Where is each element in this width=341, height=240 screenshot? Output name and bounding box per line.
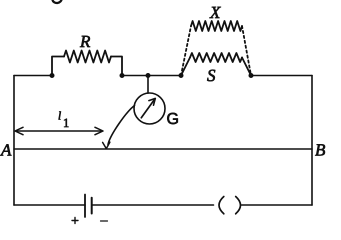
wire: top-right segment [251, 75, 312, 77]
wire: top-middle segment between R and S [122, 75, 181, 77]
galvanometer G [134, 93, 165, 124]
node: junction dot left of S/X [179, 73, 183, 77]
caption fragment (bottom of letter g from cropped figure caption) [52, 0, 62, 4]
label l1 [59, 112, 69, 128]
wire: slide wire A-B [14, 148, 312, 150]
label G [167, 113, 178, 124]
node: junction dot at galvanometer tap [146, 73, 150, 77]
battery cell [85, 195, 92, 218]
label S [207, 70, 215, 82]
wire: galvanometer lead [147, 76, 149, 94]
key K (open tap key shown as parentheses) [219, 197, 241, 214]
node: junction dot left of R [50, 73, 54, 77]
wire: left vertical edge [13, 76, 15, 206]
wire: top-left segment [14, 75, 52, 77]
resistor S [181, 53, 251, 76]
wire: bottom-right segment from key [242, 204, 313, 206]
label R [80, 36, 90, 47]
resistor R1 (R) [52, 51, 122, 76]
node: junction dot right of S/X [249, 73, 253, 77]
wire: jockey lead curve with contact arrow [103, 106, 135, 149]
battery - terminal label [101, 220, 108, 222]
wire: bottom-left segment to battery [14, 204, 85, 206]
label X [209, 7, 221, 18]
wire: bottom-middle segment battery to key [92, 204, 214, 206]
dimension arrow l1 [15, 127, 103, 134]
node B label [315, 144, 325, 155]
node: junction dot right of R [120, 73, 124, 77]
resistor X (unknown, shown with dotted leads) [181, 21, 251, 76]
wire: right vertical edge [311, 76, 313, 206]
node A label [0, 144, 11, 155]
battery + terminal label [72, 218, 78, 224]
